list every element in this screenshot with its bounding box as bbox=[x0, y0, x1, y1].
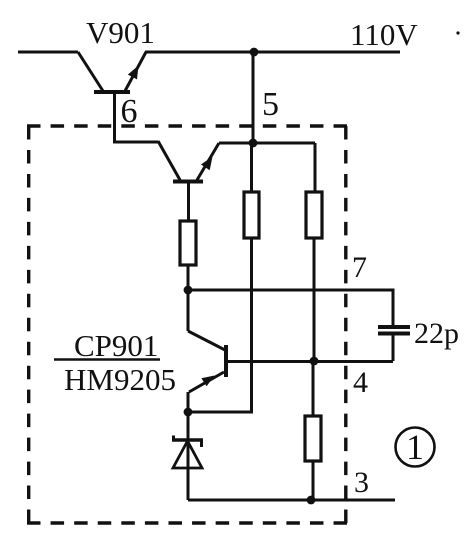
wire: 110V rail right segment bbox=[145, 51, 400, 54]
resistor R1 (left) bbox=[180, 221, 196, 265]
wire: R3 bottom lead to pin4 node bbox=[313, 238, 316, 361]
resistor R3 (right) bbox=[306, 192, 322, 238]
svg-text:1: 1 bbox=[406, 427, 424, 467]
svg-text:110V: 110V bbox=[350, 17, 418, 52]
svg-text:HM9205: HM9205 bbox=[64, 362, 176, 397]
IC CP901 dashed boundary bbox=[27, 126, 347, 523]
node: junction at node E bbox=[249, 139, 258, 148]
wire: zener anode to pin 3 line bbox=[188, 499, 395, 502]
svg-text:4: 4 bbox=[353, 366, 368, 399]
wire: pin 5 lead (110V to node E) bbox=[252, 52, 255, 143]
svg-text:7: 7 bbox=[352, 251, 367, 284]
transistor V901 bbox=[78, 52, 146, 92]
fraction rule bbox=[54, 358, 160, 361]
wire: node to zener bbox=[187, 412, 190, 500]
svg-text:22p: 22p bbox=[414, 317, 459, 350]
svg-text:V901: V901 bbox=[86, 15, 155, 50]
transistor Q1 (internal upper) bbox=[158, 141, 219, 182]
wire: pin 6 lead (V901 base into IC) bbox=[115, 92, 159, 142]
wire: R4 bottom lead bbox=[312, 461, 315, 500]
wire: 110V rail left segment bbox=[18, 51, 78, 54]
speck artifact bbox=[456, 31, 459, 34]
node: pin 3 junction bbox=[307, 496, 316, 505]
wire: R4 top lead bbox=[312, 361, 315, 416]
node: emitter/zener junction bbox=[184, 408, 193, 417]
callout circled 1 bbox=[396, 427, 435, 467]
node: junction on 110V rail bbox=[250, 48, 259, 57]
zener diode VD1 bbox=[172, 436, 203, 469]
wire: Q2 base to pin 4 line bbox=[226, 360, 393, 363]
resistor R4 (bottom right) bbox=[305, 416, 321, 461]
svg-text:CP901: CP901 bbox=[74, 328, 158, 363]
capacitor C1 bbox=[378, 327, 410, 361]
svg-text:3: 3 bbox=[354, 466, 369, 499]
wire: R2 top lead bbox=[250, 143, 253, 192]
resistor R2 (middle) bbox=[244, 192, 259, 238]
wire: R1 bottom to pin7 node bbox=[187, 265, 190, 291]
svg-text:5: 5 bbox=[262, 86, 279, 123]
node: pin 4 junction bbox=[310, 357, 319, 366]
wire: R2 bottom lead down to emitter node bbox=[188, 238, 252, 412]
wire: pin 7 line to capacitor bbox=[188, 290, 393, 326]
transistor Q2 (internal lower) bbox=[188, 290, 226, 413]
node: pin 7 junction bbox=[184, 286, 193, 295]
wire: R3 top lead bbox=[314, 143, 317, 192]
wire: Q1 emitter to node E (y=143 rail) bbox=[219, 142, 315, 145]
wire: Q1 base lead down bbox=[187, 182, 190, 221]
